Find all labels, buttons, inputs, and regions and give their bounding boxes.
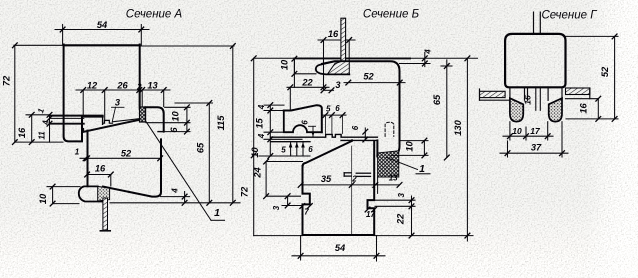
svg-text:4: 4 (424, 49, 433, 55)
svg-text:13: 13 (147, 81, 158, 91)
dim 22 right B (411, 206, 413, 235)
svg-text:16: 16 (579, 103, 589, 114)
svg-text:10: 10 (171, 111, 181, 122)
dim 65 right B (441, 65, 452, 67)
ext line top left A (14, 44, 64, 46)
connector plate G (533, 12, 535, 34)
svg-text:65: 65 (432, 94, 442, 105)
dim 37 G (507, 141, 509, 157)
frame head profile A (64, 44, 140, 46)
svg-text:35: 35 (321, 174, 332, 184)
svg-text:7: 7 (304, 208, 309, 217)
vertical board hatched B (341, 18, 346, 63)
dim 35 2 13 B (301, 184, 400, 186)
sash slope A (84, 120, 140, 132)
svg-text:Сечение Б: Сечение Б (363, 9, 420, 21)
svg-text:24: 24 (253, 167, 263, 179)
dim 115 A (140, 45, 234, 47)
svg-text:6: 6 (308, 145, 313, 154)
long top line B (254, 57, 295, 59)
svg-text:6: 6 (351, 125, 360, 130)
sash left edge A (87, 131, 89, 187)
svg-text:10: 10 (280, 59, 290, 70)
dims 10 17 G (509, 122, 511, 140)
dim 72 A (14, 45, 16, 142)
glazing bead A (146, 107, 164, 131)
vertical member G (505, 34, 565, 87)
svg-text:4: 4 (257, 104, 266, 110)
drip stipple A (98, 186, 110, 201)
right glazing strip G (566, 88, 590, 95)
svg-text:16: 16 (523, 95, 533, 105)
dim 54 (62, 25, 64, 46)
svg-text:16: 16 (95, 164, 106, 174)
hatch block B (378, 151, 399, 177)
right edge dark B (376, 140, 378, 156)
svg-text:72: 72 (2, 75, 12, 86)
svg-text:22: 22 (301, 78, 313, 88)
dim 10 top-left B (293, 59, 295, 74)
svg-text:17: 17 (530, 126, 541, 136)
svg-text:26: 26 (116, 81, 128, 91)
svg-text:130: 130 (453, 119, 463, 135)
svg-text:4: 4 (42, 120, 51, 126)
svg-text:3: 3 (397, 193, 406, 198)
bottom ext lines B (254, 235, 303, 237)
dims 1 4 11 left A (49, 115, 51, 142)
dim 3 right B (375, 199, 415, 201)
dim 3 left B (287, 196, 289, 205)
ext line bottom of 72 (15, 141, 63, 143)
dim 3 top B (324, 89, 334, 91)
dim 52 B (344, 82, 405, 84)
sash top bars A (overlap) (50, 115, 103, 117)
svg-text:12: 12 (87, 81, 98, 91)
dim 4 bottom right A (161, 196, 190, 198)
svg-text:16: 16 (17, 127, 27, 138)
weather bar A (103, 198, 108, 230)
svg-text:52: 52 (600, 66, 610, 77)
dim 16 right G (597, 99, 599, 119)
svg-text:52: 52 (363, 71, 374, 81)
svg-text:4: 4 (257, 133, 266, 139)
left dim column B 4 15 4 (269, 105, 271, 156)
dim 65 A (175, 102, 213, 104)
dim 10 bottom-left A (52, 187, 54, 204)
svg-text:3: 3 (272, 205, 281, 210)
svg-text:6: 6 (169, 127, 179, 133)
svg-text:5: 5 (326, 105, 331, 114)
svg-text:2: 2 (136, 83, 142, 92)
svg-text:1: 1 (214, 207, 220, 219)
dims 5 6 over bumps B (322, 114, 346, 116)
dim 16 lower A (87, 174, 111, 176)
svg-text:5: 5 (281, 146, 286, 155)
svg-text:22: 22 (396, 213, 406, 225)
right drip G (549, 98, 562, 121)
svg-text:10: 10 (405, 141, 415, 152)
dim 52 G (566, 35, 618, 37)
svg-text:3: 3 (115, 98, 121, 108)
dim 6 middle B (364, 128, 366, 140)
dim 4 top right B (400, 63, 431, 65)
dim 72 B (253, 58, 255, 235)
svg-text:11: 11 (38, 131, 47, 140)
svg-text:72: 72 (240, 186, 250, 197)
dims 12 26 2 13 (82, 90, 84, 116)
fortochka profile B (284, 105, 322, 132)
svg-text:52: 52 (121, 149, 132, 159)
ext bottom right A (110, 202, 240, 204)
svg-text:115: 115 (216, 115, 226, 131)
dashed groove B (385, 122, 394, 136)
seal block hatched A (140, 107, 146, 122)
svg-text:10: 10 (512, 126, 522, 136)
svg-text:6: 6 (335, 104, 340, 113)
dim 16 top B (318, 39, 355, 41)
member bottom lines B (271, 134, 378, 137)
lower sash B (303, 140, 353, 166)
dims 10 6 right of bead A (165, 106, 190, 108)
svg-text:54: 54 (97, 20, 108, 30)
svg-text:16: 16 (328, 29, 339, 39)
left drip G (510, 98, 523, 121)
dim 24 left B (265, 162, 267, 197)
svg-text:Сечение А: Сечение А (126, 9, 183, 21)
svg-text:37: 37 (531, 143, 542, 153)
svg-text:Сечение Г: Сечение Г (542, 10, 598, 22)
svg-text:10: 10 (38, 193, 48, 204)
svg-text:15: 15 (254, 118, 264, 129)
left glazing strip G (480, 91, 506, 97)
svg-text:54: 54 (335, 243, 346, 253)
dim 10 right B (401, 140, 428, 142)
dim 16 left A (31, 115, 33, 142)
svg-text:17: 17 (366, 210, 375, 219)
drip nose A (79, 186, 103, 201)
glass marks B (344, 172, 351, 174)
hatched triangle B (328, 62, 350, 74)
top member profile B (316, 61, 350, 74)
svg-text:1: 1 (75, 148, 80, 157)
leader 1 B (387, 158, 418, 170)
svg-text:1: 1 (419, 163, 425, 175)
dim 130 B (466, 58, 468, 241)
svg-text:6: 6 (301, 120, 310, 125)
dim 52 A (80, 157, 160, 159)
channel lines G (509, 87, 511, 98)
dim 22 B (287, 86, 329, 88)
sash right side A (103, 139, 161, 196)
svg-text:3: 3 (335, 80, 341, 90)
svg-text:2: 2 (351, 174, 357, 183)
leader 1 A (146, 122, 211, 221)
svg-text:65: 65 (196, 142, 206, 153)
glass line A (113, 119, 140, 122)
dim 54 B (300, 236, 302, 260)
svg-text:13: 13 (389, 173, 398, 182)
svg-text:4: 4 (171, 188, 180, 194)
